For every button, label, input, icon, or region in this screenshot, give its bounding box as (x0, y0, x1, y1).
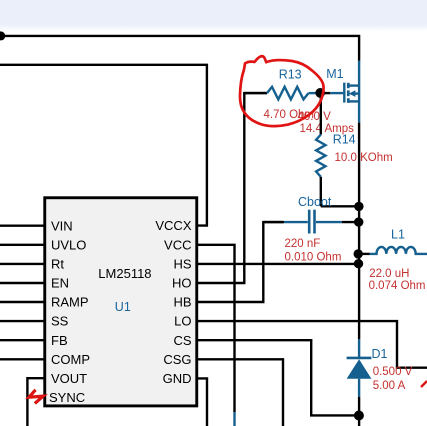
pin GND wire (163, 371, 207, 426)
wire VCCX net (0, 65, 207, 226)
wire input top rail (1, 36, 359, 61)
transistor M1 (326, 61, 359, 123)
svg-text:0.500 V: 0.500 V (373, 366, 413, 378)
svg-text:5.00 A: 5.00 A (373, 380, 406, 392)
red annotation bolt on SYNC (29, 390, 43, 404)
pin RAMP (0, 295, 89, 310)
svg-text:M1: M1 (326, 67, 343, 81)
svg-text:COMP: COMP (51, 352, 90, 367)
svg-text:22.0 uH: 22.0 uH (369, 268, 409, 280)
pin HB wire to Cboot (173, 222, 283, 310)
svg-text:R14: R14 (333, 133, 356, 147)
capacitor Cboot (263, 195, 359, 263)
red annotation circle around R13 (240, 56, 324, 126)
svg-text:CS: CS (173, 333, 191, 348)
resistor R13 (244, 68, 320, 121)
svg-text:Rt: Rt (51, 257, 64, 272)
svg-text:VIN: VIN (51, 218, 73, 233)
node rail/Cboot (354, 217, 363, 226)
node input left edge (0, 31, 5, 40)
pin LO wire (174, 314, 427, 368)
svg-text:VCCX: VCCX (155, 218, 191, 233)
pin VIN (0, 218, 73, 233)
pin EN (0, 276, 69, 291)
node rail/L1 (354, 249, 363, 258)
svg-text:RAMP: RAMP (51, 295, 89, 310)
svg-text:VCC: VCC (164, 237, 191, 252)
svg-text:EN: EN (51, 276, 69, 291)
svg-text:220 nF: 220 nF (285, 238, 321, 250)
diode D1 (347, 339, 413, 397)
pin UVLO (0, 237, 86, 252)
svg-text:HO: HO (172, 276, 192, 291)
IC U1 body (45, 198, 197, 406)
wire R14 to rail (321, 205, 359, 207)
svg-text:HB: HB (173, 295, 191, 310)
red annotation fragment right edge (421, 381, 427, 387)
inductor L1 (358, 228, 427, 292)
pin Rt (0, 257, 64, 272)
svg-text:HS: HS (173, 257, 191, 272)
pin CS wire (173, 333, 358, 416)
resistor R14 (316, 93, 393, 206)
svg-text:Cboot: Cboot (298, 195, 332, 209)
pin COMP (0, 352, 90, 367)
node gate junction (315, 88, 325, 98)
svg-text:0.074 Ohm: 0.074 Ohm (369, 280, 426, 292)
svg-text:FB: FB (51, 333, 68, 348)
svg-text:LO: LO (174, 314, 191, 329)
svg-text:D1: D1 (372, 347, 388, 361)
svg-text:R13: R13 (279, 68, 302, 82)
pin VCC wire (164, 237, 234, 426)
svg-text:SS: SS (51, 314, 69, 329)
svg-text:0.010 Ohm: 0.010 Ohm (285, 251, 342, 263)
wire switch rail (358, 123, 360, 339)
svg-text:U1: U1 (115, 300, 131, 314)
pin SS (0, 314, 69, 329)
svg-text:GND: GND (163, 371, 192, 386)
node rail/R14 (354, 202, 363, 211)
pin CSG wire (163, 352, 283, 426)
svg-text:VOUT: VOUT (51, 371, 87, 386)
svg-text:40.0 V: 40.0 V (298, 111, 332, 123)
node output junction (354, 411, 364, 421)
svg-text:10.0 KOhm: 10.0 KOhm (335, 152, 393, 164)
pin VOUT wire (27, 371, 87, 426)
wire D1 anode down (358, 397, 360, 426)
pin FB (0, 333, 68, 348)
svg-text:L1: L1 (391, 228, 405, 242)
svg-text:SYNC: SYNC (49, 390, 85, 405)
svg-text:LM25118: LM25118 (98, 266, 151, 281)
pin SYNC (49, 390, 85, 405)
svg-text:CSG: CSG (163, 352, 191, 367)
pin HO wire to R13 (172, 93, 267, 291)
pin HS wire (173, 257, 359, 272)
node rail/HS (354, 259, 363, 268)
svg-text:UVLO: UVLO (51, 237, 86, 252)
wire gate lead (320, 92, 330, 94)
